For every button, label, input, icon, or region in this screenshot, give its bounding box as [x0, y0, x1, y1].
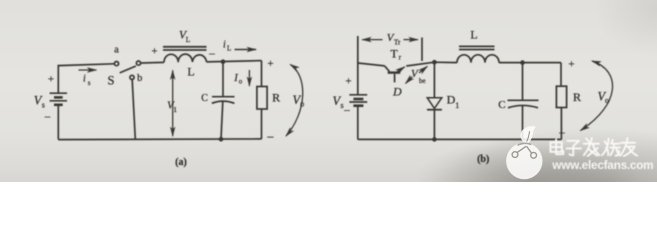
- svg-text:1: 1: [455, 101, 459, 110]
- svg-text:L: L: [186, 35, 191, 44]
- svg-text:1: 1: [173, 105, 177, 114]
- svg-text:+: +: [568, 59, 574, 71]
- svg-text:o: o: [300, 99, 304, 108]
- svg-text:s: s: [88, 79, 91, 87]
- svg-text:−: −: [344, 104, 351, 118]
- svg-text:C: C: [201, 93, 208, 104]
- svg-text:L: L: [470, 28, 477, 42]
- svg-text:+: +: [267, 58, 273, 70]
- svg-text:Tr: Tr: [394, 39, 401, 47]
- svg-text:L: L: [187, 65, 194, 79]
- svg-text:R: R: [272, 90, 280, 104]
- svg-text:(b): (b): [477, 154, 489, 165]
- svg-text:T: T: [390, 46, 398, 60]
- svg-text:o: o: [605, 96, 609, 105]
- svg-text:I: I: [233, 73, 238, 84]
- svg-text:+: +: [345, 76, 351, 88]
- svg-text:s: s: [42, 101, 45, 110]
- svg-text:a: a: [114, 45, 119, 56]
- svg-text:L: L: [227, 45, 231, 53]
- svg-text:−: −: [267, 130, 274, 145]
- svg-text:−: −: [44, 110, 51, 124]
- svg-text:−: −: [559, 126, 566, 140]
- svg-text:R: R: [573, 90, 581, 104]
- svg-text:b: b: [137, 73, 142, 84]
- svg-text:+: +: [48, 74, 54, 86]
- svg-text:(a): (a): [175, 157, 187, 168]
- svg-text:C: C: [498, 99, 505, 111]
- svg-text:be: be: [419, 77, 426, 85]
- svg-text:V: V: [411, 68, 419, 80]
- svg-text:D: D: [392, 85, 402, 99]
- svg-text:+: +: [152, 46, 158, 57]
- svg-text:o: o: [239, 78, 243, 86]
- svg-text:www.elecfans.com: www.elecfans.com: [551, 158, 653, 172]
- svg-text:i: i: [223, 40, 226, 51]
- svg-text:i: i: [83, 74, 86, 85]
- svg-text:r: r: [399, 53, 402, 62]
- svg-text:−: −: [209, 47, 216, 61]
- svg-text:S: S: [108, 74, 115, 88]
